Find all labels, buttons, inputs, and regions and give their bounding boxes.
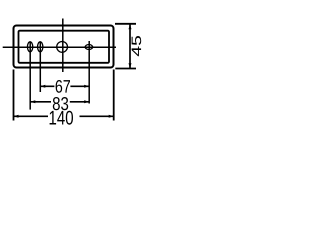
45 top arrow xyxy=(129,24,132,29)
oval hole (right) xyxy=(85,45,92,50)
83 right arrow xyxy=(84,100,89,103)
slot 1 extension line xyxy=(29,42,31,110)
45 label xyxy=(132,36,142,56)
83 dimension line xyxy=(30,101,89,103)
45 bottom extension line xyxy=(115,68,136,70)
45 dimension line xyxy=(129,25,131,69)
67 label xyxy=(56,80,70,93)
vertical centerline through circle xyxy=(62,19,64,73)
140 right extension line xyxy=(113,70,115,121)
center hole circle xyxy=(57,42,68,53)
140 left arrow xyxy=(14,115,19,118)
83 label xyxy=(53,97,68,110)
83 left arrow xyxy=(30,100,35,103)
outer plate body xyxy=(14,26,114,68)
slot 2 xyxy=(38,42,43,52)
67 right arrow xyxy=(84,85,89,88)
45 bottom arrow xyxy=(129,63,132,68)
67 left arrow xyxy=(40,85,45,88)
140 left extension line xyxy=(13,70,15,121)
horizontal centerline xyxy=(3,46,116,48)
inner plate face xyxy=(19,31,110,63)
oval extension line xyxy=(88,41,90,104)
slot 1 (left) xyxy=(27,42,32,52)
45 top extension line xyxy=(115,23,136,25)
140 dimension line xyxy=(14,115,114,117)
140 label xyxy=(50,111,73,125)
slot 2 extension line xyxy=(39,42,41,93)
67 dimension line xyxy=(40,85,89,87)
140 right arrow xyxy=(109,115,114,118)
